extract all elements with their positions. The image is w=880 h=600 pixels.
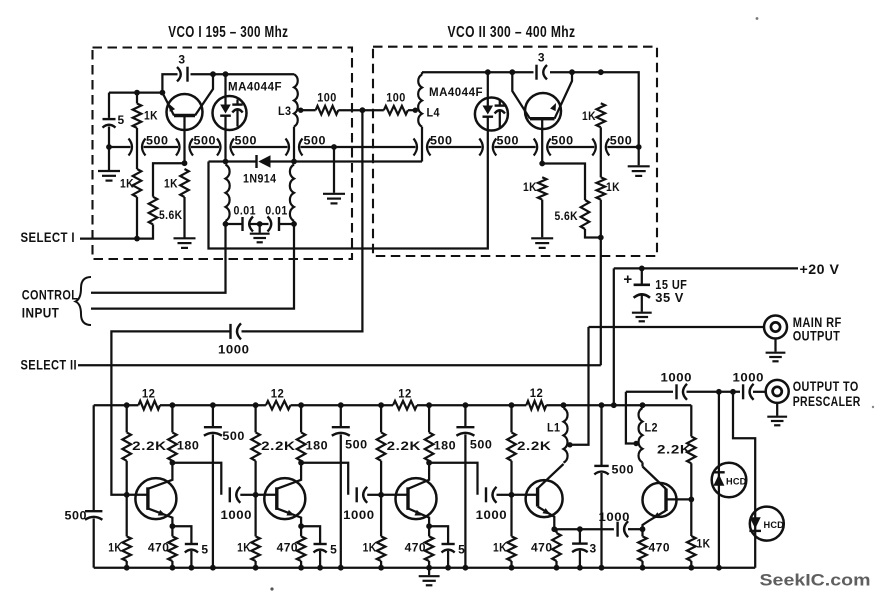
svg-text:100: 100	[386, 91, 406, 105]
svg-text:1000: 1000	[599, 510, 631, 524]
svg-text:1K: 1K	[144, 109, 158, 123]
svg-text:12: 12	[530, 386, 544, 400]
svg-text:5: 5	[330, 543, 337, 557]
svg-text:0.01: 0.01	[234, 206, 257, 218]
svg-text:1K: 1K	[237, 541, 251, 555]
svg-text:L4: L4	[427, 106, 441, 120]
svg-text:180: 180	[177, 439, 200, 453]
svg-text:500: 500	[304, 134, 327, 148]
svg-text:3: 3	[178, 53, 185, 67]
svg-text:1000: 1000	[343, 508, 375, 522]
svg-text:470: 470	[649, 541, 671, 555]
svg-text:1K: 1K	[697, 537, 711, 551]
svg-text:470: 470	[148, 541, 170, 555]
svg-text:2.2K: 2.2K	[657, 443, 692, 457]
svg-text:5.6K: 5.6K	[555, 209, 579, 223]
svg-text:1K: 1K	[606, 180, 620, 194]
svg-text:SELECT II: SELECT II	[21, 356, 78, 372]
svg-text:5.6K: 5.6K	[159, 208, 183, 222]
svg-text:1K: 1K	[108, 541, 122, 555]
svg-text:OUTPUT TO: OUTPUT TO	[793, 379, 859, 394]
svg-text:1K: 1K	[493, 541, 507, 555]
svg-text:CONTROL: CONTROL	[22, 286, 79, 302]
svg-text:500: 500	[497, 134, 520, 148]
svg-text:OUTPUT: OUTPUT	[793, 328, 841, 343]
svg-text:3: 3	[538, 51, 545, 65]
svg-text:470: 470	[531, 541, 553, 555]
svg-text:1000: 1000	[661, 371, 693, 385]
svg-text:470: 470	[405, 541, 427, 555]
svg-text:500: 500	[222, 429, 245, 443]
svg-text:0.01: 0.01	[265, 206, 288, 218]
svg-text:VCO II 300 – 400 Mhz: VCO II 300 – 400 Mhz	[448, 24, 576, 41]
svg-text:2.2K: 2.2K	[261, 439, 296, 453]
svg-text:100: 100	[317, 91, 337, 105]
svg-text:5: 5	[458, 543, 465, 557]
svg-text:1000: 1000	[218, 343, 250, 357]
svg-text:1K: 1K	[582, 109, 596, 123]
svg-text:500: 500	[235, 134, 258, 148]
svg-text:500: 500	[612, 463, 635, 477]
svg-text:1000: 1000	[476, 508, 508, 522]
svg-text:35 V: 35 V	[655, 290, 684, 305]
svg-text:+20 V: +20 V	[800, 262, 840, 277]
svg-text:1K: 1K	[120, 177, 134, 191]
svg-text:2.2K: 2.2K	[132, 439, 167, 453]
svg-text:1000: 1000	[221, 508, 253, 522]
svg-text:12: 12	[142, 387, 156, 401]
svg-text:VCO I 195 – 300 Mhz: VCO I 195 – 300 Mhz	[168, 24, 288, 41]
svg-text:500: 500	[551, 134, 574, 148]
svg-text:470: 470	[277, 541, 299, 555]
svg-text:MA4044F: MA4044F	[429, 85, 483, 99]
svg-text:PRESCALER: PRESCALER	[793, 394, 861, 409]
svg-text:HCD: HCD	[726, 477, 747, 488]
svg-text:500: 500	[345, 438, 368, 452]
svg-text:INPUT: INPUT	[22, 305, 60, 321]
svg-text:SELECT I: SELECT I	[21, 229, 76, 245]
svg-text:12: 12	[271, 387, 285, 401]
svg-text:500: 500	[430, 134, 453, 148]
svg-text:1K: 1K	[363, 541, 377, 555]
svg-text:1N914: 1N914	[243, 172, 277, 186]
svg-text:L2: L2	[645, 421, 659, 435]
svg-text:500: 500	[146, 134, 169, 148]
svg-text:2.2K: 2.2K	[387, 439, 422, 453]
svg-text:+: +	[623, 271, 632, 288]
svg-text:500: 500	[194, 134, 217, 148]
svg-text:L1: L1	[547, 421, 561, 435]
svg-text:HCD: HCD	[764, 520, 785, 531]
svg-text:MA4044F: MA4044F	[228, 80, 282, 94]
svg-text:1K: 1K	[164, 177, 178, 191]
svg-text:500: 500	[65, 509, 88, 523]
svg-text:180: 180	[434, 439, 457, 453]
svg-text:500: 500	[610, 134, 633, 148]
svg-text:500: 500	[470, 438, 493, 452]
svg-text:1K: 1K	[523, 180, 537, 194]
svg-text:L3: L3	[278, 104, 292, 118]
svg-text:1000: 1000	[733, 371, 765, 385]
svg-text:12: 12	[398, 387, 412, 401]
svg-text:3: 3	[590, 542, 597, 556]
svg-text:2.2K: 2.2K	[517, 439, 552, 453]
svg-text:5: 5	[118, 113, 125, 127]
svg-text:SeekIC.com: SeekIC.com	[760, 571, 871, 590]
svg-text:5: 5	[201, 543, 208, 557]
svg-text:180: 180	[306, 439, 329, 453]
